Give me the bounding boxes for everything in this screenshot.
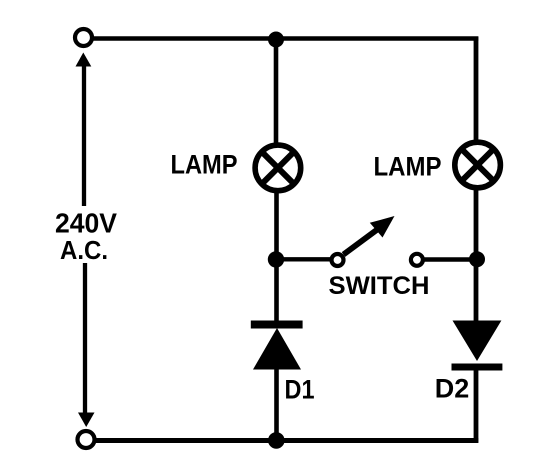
arrowhead down — [78, 413, 95, 428]
svg-text:LAMP: LAMP — [374, 152, 442, 182]
240V source arrow line upper — [82, 62, 86, 206]
svg-text:SWITCH: SWITCH — [329, 273, 430, 300]
svg-text:A.C.: A.C. — [60, 235, 108, 265]
node junction top (middle branch / top wire) — [268, 32, 284, 48]
node junction switch-right (right branch) — [469, 251, 485, 267]
svg-text:D2: D2 — [435, 374, 470, 404]
switch right contact — [411, 254, 423, 266]
wire middle branch upper vertical — [274, 39, 279, 145]
switch lever with arrowhead SW1 — [344, 216, 395, 255]
terminal top-left — [75, 29, 92, 46]
wire right branch lower vertical — [474, 366, 479, 443]
node junction switch-left (middle branch) — [268, 251, 284, 267]
svg-text:D1: D1 — [285, 375, 315, 405]
wire switch right contact to right branch — [424, 257, 472, 261]
svg-text:LAMP: LAMP — [171, 150, 238, 180]
wire right branch upper vertical — [474, 37, 479, 144]
240V source arrow line lower — [83, 263, 87, 416]
wire top horizontal — [92, 36, 478, 41]
switch left contact — [332, 254, 344, 266]
arrowhead up — [76, 53, 92, 67]
wire middle branch lower vertical — [274, 367, 279, 442]
wire right branch middle vertical — [474, 188, 479, 323]
wire junction to switch left contact — [276, 257, 330, 261]
svg-text:240V: 240V — [55, 208, 118, 239]
lamp left (circle with X) — [255, 145, 301, 191]
lamp right (circle with X) — [455, 142, 501, 188]
terminal bottom-left — [78, 431, 95, 448]
diode D2 (triangle pointing down, cathode bar below) — [452, 321, 503, 371]
wire bottom horizontal — [96, 438, 478, 443]
wire middle branch mid vertical — [274, 191, 279, 322]
diode D1 (cathode bar on top, triangle pointing up) — [251, 321, 303, 370]
node junction bottom (middle branch / bottom wire) — [268, 432, 285, 449]
